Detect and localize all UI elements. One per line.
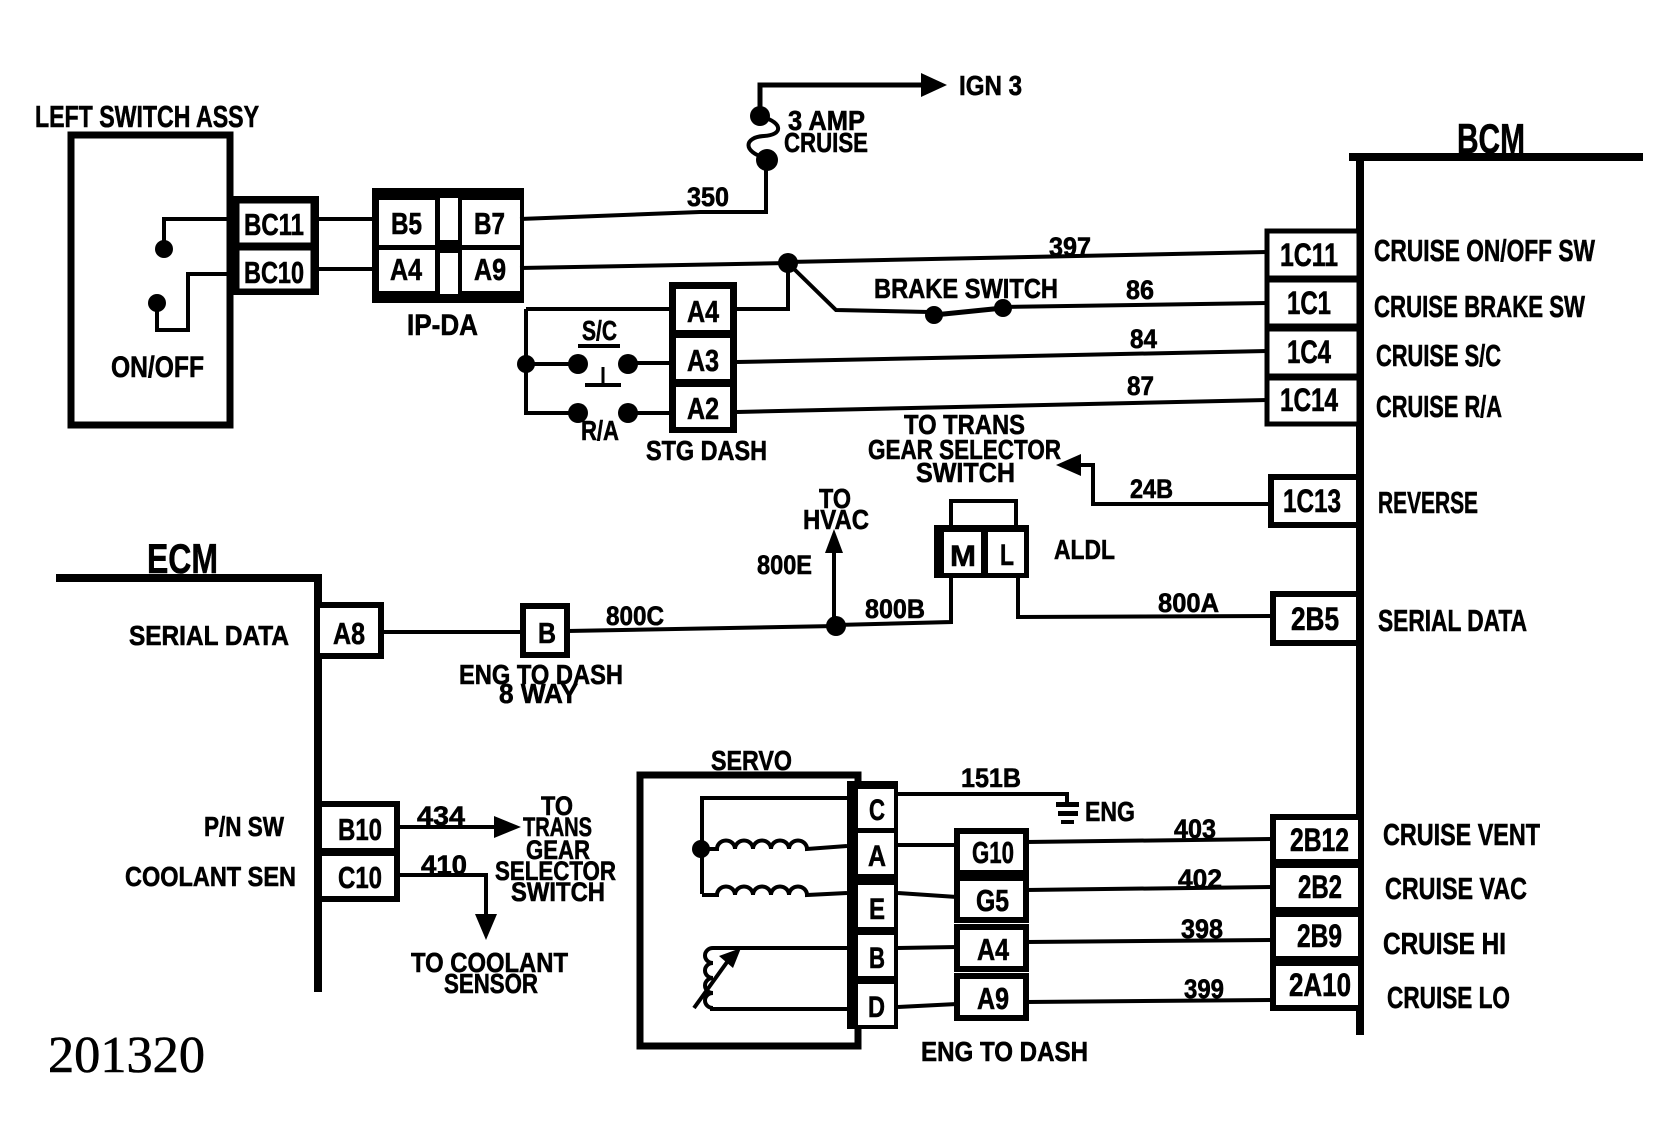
- connector BC11/BC10 outer frame: [231, 196, 319, 295]
- svg-text:BC10: BC10: [244, 255, 304, 290]
- svg-text:1C1: 1C1: [1287, 285, 1331, 321]
- ECM rail: [56, 574, 318, 582]
- wire pot top to B pin: [713, 946, 847, 950]
- wire 86 to 1C1: [1003, 303, 1267, 307]
- wire switch to BC11: [164, 219, 230, 244]
- svg-text:CRUISE R/A: CRUISE R/A: [1376, 389, 1502, 424]
- svg-text:A: A: [868, 840, 886, 873]
- svg-text:ON/OFF: ON/OFF: [111, 351, 204, 384]
- connector pin B7: [462, 200, 520, 245]
- connector ENG TO DASH pin A4: [957, 927, 1026, 969]
- svg-text:HVAC: HVAC: [803, 504, 869, 535]
- svg-text:BC11: BC11: [244, 207, 304, 242]
- svg-text:SWITCH: SWITCH: [511, 877, 605, 907]
- svg-text:SERIAL DATA: SERIAL DATA: [1378, 603, 1527, 638]
- svg-text:CRUISE VAC: CRUISE VAC: [1385, 871, 1527, 906]
- servo potentiometer: [705, 948, 713, 1008]
- svg-text:2A10: 2A10: [1289, 967, 1351, 1003]
- svg-text:L: L: [1000, 539, 1014, 572]
- svg-text:86: 86: [1126, 275, 1154, 305]
- BCM rail: [1349, 153, 1643, 161]
- svg-text:LEFT SWITCH ASSY: LEFT SWITCH ASSY: [35, 99, 259, 134]
- svg-text:A3: A3: [687, 343, 719, 378]
- svg-text:800E: 800E: [757, 550, 812, 580]
- BCM pin 1C14: [1267, 378, 1359, 424]
- connector pin A4: [676, 289, 730, 330]
- svg-text:1C14: 1C14: [1280, 382, 1338, 418]
- svg-text:A4: A4: [390, 252, 423, 287]
- svg-text:BRAKE SWITCH: BRAKE SWITCH: [874, 273, 1058, 304]
- svg-text:2B12: 2B12: [1290, 822, 1349, 858]
- svg-text:IGN 3: IGN 3: [959, 70, 1022, 101]
- svg-text:A8: A8: [333, 616, 365, 651]
- S/C actuator: [602, 367, 605, 384]
- wire fuse to IGN 3 arrow: [760, 85, 922, 108]
- switch contact dot lower: [148, 294, 166, 312]
- wire A8 to B: [383, 630, 522, 634]
- wire 84 A3 to 1C4: [737, 351, 1267, 362]
- switch contact dot upper: [155, 240, 173, 258]
- servo internal wire C branch: [702, 798, 847, 894]
- svg-text:397: 397: [1049, 232, 1091, 262]
- svg-text:1C13: 1C13: [1283, 483, 1341, 519]
- svg-text:350: 350: [687, 182, 729, 212]
- svg-text:G5: G5: [976, 883, 1009, 918]
- ground ENG: [1056, 802, 1079, 807]
- servo pin C: [858, 789, 894, 828]
- left switch assy box: [71, 135, 230, 425]
- BCM pin 1C11: [1267, 231, 1359, 278]
- svg-text:1C11: 1C11: [1280, 237, 1338, 273]
- svg-text:2B2: 2B2: [1298, 869, 1342, 905]
- svg-text:24B: 24B: [1130, 474, 1173, 504]
- svg-text:CRUISE BRAKE SW: CRUISE BRAKE SW: [1374, 289, 1586, 324]
- connector pin A3: [676, 338, 730, 379]
- svg-text:P/N SW: P/N SW: [204, 811, 284, 842]
- servo pin E: [858, 885, 894, 927]
- wire B pin to A4: [898, 947, 957, 948]
- svg-text:B10: B10: [338, 812, 382, 847]
- wire 397 to 1C11: [788, 252, 1267, 262]
- svg-text:2B5: 2B5: [1291, 601, 1339, 637]
- svg-text:1C4: 1C4: [1287, 334, 1331, 370]
- svg-text:800A: 800A: [1158, 588, 1219, 618]
- svg-text:SWITCH: SWITCH: [916, 457, 1015, 488]
- wire switch to BC10: [157, 274, 230, 330]
- BCM pin 2B5: [1273, 594, 1359, 643]
- wire BC11 to B5: [319, 217, 377, 221]
- wire E pin to G5: [898, 893, 957, 897]
- wire 800C B to junction: [567, 626, 836, 631]
- svg-text:398: 398: [1181, 914, 1223, 944]
- servo coil 1: [702, 841, 847, 850]
- svg-text:B: B: [538, 618, 556, 650]
- svg-text:M: M: [950, 540, 976, 573]
- svg-text:8 WAY: 8 WAY: [499, 678, 578, 709]
- R/A switch: [568, 403, 588, 423]
- BCM pin 2B9: [1273, 914, 1361, 959]
- svg-text:403: 403: [1174, 814, 1216, 844]
- servo pin B: [858, 935, 894, 976]
- wire diagonal junction to brake switch: [792, 267, 929, 312]
- connector pin A2: [676, 387, 730, 427]
- potentiometer wiper arrow: [694, 958, 730, 1008]
- wire 800E up to HVAC: [832, 552, 836, 626]
- svg-text:CRUISE HI: CRUISE HI: [1383, 926, 1506, 961]
- svg-text:SERIAL DATA: SERIAL DATA: [129, 620, 289, 651]
- svg-text:D: D: [868, 991, 885, 1024]
- svg-text:87: 87: [1127, 371, 1154, 401]
- connector pin BC11: [238, 202, 312, 244]
- svg-text:S/C: S/C: [582, 315, 617, 346]
- svg-text:R/A: R/A: [581, 415, 619, 446]
- wire junction down to STG DASH A4: [737, 263, 788, 309]
- svg-text:STG DASH: STG DASH: [646, 435, 767, 466]
- svg-text:C: C: [869, 794, 885, 827]
- connector pin A4: [379, 250, 435, 291]
- svg-text:A9: A9: [474, 252, 506, 287]
- connector ENG TO DASH pin G10: [957, 831, 1026, 873]
- connector ENG TO DASH pin G5: [957, 878, 1026, 920]
- BCM pin 2B2: [1273, 865, 1361, 910]
- svg-text:A4: A4: [687, 294, 720, 329]
- connector ENG TO DASH pin A9: [957, 976, 1026, 1018]
- wire 87 A2 to 1C14: [737, 400, 1267, 412]
- connector pin B5: [379, 200, 435, 245]
- svg-text:IP-DA: IP-DA: [407, 309, 478, 342]
- HVAC junction node: [826, 616, 846, 636]
- svg-text:COOLANT SEN: COOLANT SEN: [125, 861, 296, 892]
- wire 24B from 1C13 to trans arrow: [1081, 465, 1271, 504]
- wire 151B C pin to ground: [898, 794, 1067, 803]
- svg-text:151B: 151B: [961, 763, 1021, 793]
- svg-text:434: 434: [417, 801, 465, 831]
- servo coil 2: [702, 887, 847, 896]
- S/C switch: [526, 362, 573, 366]
- svg-text:SERVO: SERVO: [711, 745, 792, 776]
- wire 800B junction to ALDL M: [836, 578, 951, 625]
- svg-text:ENG TO DASH: ENG TO DASH: [921, 1036, 1088, 1067]
- fuse 3 AMP CRUISE: [750, 106, 770, 126]
- servo pin D: [858, 984, 894, 1025]
- svg-text:ALDL: ALDL: [1054, 534, 1115, 565]
- wire D pin to A9: [898, 1004, 957, 1007]
- svg-text:REVERSE: REVERSE: [1378, 485, 1478, 520]
- svg-text:84: 84: [1130, 324, 1157, 354]
- ECM pin A8: [317, 605, 381, 656]
- svg-text:SENSOR: SENSOR: [444, 968, 538, 999]
- ECM pin B10: [319, 804, 397, 851]
- svg-text:800C: 800C: [606, 601, 664, 631]
- wire 402 G5 to 2B2: [1026, 887, 1272, 890]
- BCM pin 1C13: [1271, 477, 1359, 525]
- svg-text:410: 410: [421, 850, 467, 880]
- node coil1: [692, 840, 710, 858]
- svg-text:C10: C10: [338, 860, 382, 895]
- svg-text:E: E: [869, 893, 885, 926]
- svg-text:CRUISE VENT: CRUISE VENT: [1383, 817, 1540, 852]
- svg-text:A4: A4: [977, 932, 1010, 967]
- connector IP-DA body: [372, 188, 524, 303]
- svg-text:402: 402: [1178, 864, 1222, 894]
- svg-text:CRUISE LO: CRUISE LO: [1387, 980, 1510, 1015]
- servo pin strip: [847, 781, 898, 1029]
- connector B (ENG TO DASH 8 WAY): [523, 606, 567, 655]
- wire BC10 to A4: [319, 267, 377, 271]
- svg-text:B7: B7: [474, 206, 505, 241]
- svg-text:B5: B5: [391, 206, 422, 241]
- connector pin BC10: [238, 249, 312, 290]
- node on branch: [517, 355, 535, 373]
- svg-text:ENG: ENG: [1085, 796, 1135, 827]
- svg-text:G10: G10: [972, 835, 1014, 870]
- wire 434 to trans gear selector: [397, 825, 495, 829]
- wire A pin to G10: [898, 843, 957, 847]
- wire A9 to junction: [520, 263, 788, 268]
- svg-text:2B9: 2B9: [1297, 918, 1342, 954]
- BCM pin 2B12: [1273, 817, 1361, 862]
- wire STG A4 to S/C-R/A branch: [526, 307, 675, 311]
- svg-text:B: B: [869, 942, 885, 975]
- wire 410 to coolant sensor: [397, 875, 486, 915]
- svg-text:201320: 201320: [48, 1027, 205, 1084]
- connector STG DASH body: [669, 282, 737, 433]
- wire 403 G10 to 2B12: [1026, 839, 1272, 842]
- svg-text:CRUISE S/C: CRUISE S/C: [1376, 338, 1501, 373]
- connector ALDL: [951, 501, 1016, 527]
- servo pin A: [858, 833, 894, 874]
- wire 399 A9 to 2A10: [1026, 1000, 1272, 1002]
- svg-text:CRUISE ON/OFF SW: CRUISE ON/OFF SW: [1374, 233, 1596, 268]
- wire 800A ALDL L to 2B5: [1018, 578, 1270, 617]
- svg-text:A9: A9: [977, 981, 1009, 1016]
- connector pin A9: [462, 250, 520, 291]
- svg-text:800B: 800B: [865, 594, 925, 624]
- BCM pin 1C4: [1267, 329, 1359, 376]
- servo box: [640, 775, 858, 1046]
- svg-text:399: 399: [1184, 974, 1224, 1004]
- BCM pin 2A10: [1273, 963, 1361, 1008]
- wire 398 A4 to 2B9: [1026, 940, 1272, 942]
- ECM pin C10: [319, 853, 397, 899]
- svg-text:CRUISE: CRUISE: [784, 127, 868, 158]
- wire 350 from B7 to fuse: [520, 165, 766, 219]
- svg-text:A2: A2: [687, 391, 719, 426]
- junction node: [778, 253, 798, 273]
- BCM pin 1C1: [1267, 280, 1359, 326]
- wire pot bottom to D pin: [710, 1007, 847, 1011]
